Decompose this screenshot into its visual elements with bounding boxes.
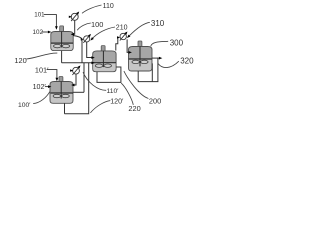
wire pump210 discharge into reactor 200 — [87, 42, 93, 58]
arrow into vessel2 upper left — [91, 56, 94, 59]
wire riser from vessel4 outlet to main line — [83, 63, 85, 93]
svg-text:100′: 100′ — [18, 102, 31, 109]
wire pump310 discharge into reactor 300 — [127, 39, 129, 52]
leader 200 — [124, 71, 148, 98]
svg-text:101′: 101′ — [35, 65, 49, 74]
reactor vessel 300 body — [129, 47, 153, 72]
leader 110' — [83, 72, 106, 90]
wire tee from vessel1 outlet down to main line — [81, 39, 83, 63]
wire vessel4 bottom outlet — [64, 103, 66, 113]
wire vessel2 recirculation loop 220 — [97, 67, 121, 82]
wire vessel3 loop tee to vessel right side — [151, 63, 153, 81]
svg-text:101: 101 — [34, 12, 45, 19]
leader 300 — [151, 41, 169, 46]
svg-text:110: 110 — [103, 3, 114, 10]
wire vessel3 recirculation loop — [138, 58, 160, 82]
svg-text:210: 210 — [116, 24, 128, 31]
arrow feed 102 into vessel1 — [48, 31, 51, 34]
arrow into vessel1 right side — [71, 33, 74, 36]
svg-text:320: 320 — [180, 57, 194, 66]
pump 310 — [119, 31, 129, 42]
leader 210 — [92, 27, 115, 39]
svg-text:220: 220 — [128, 104, 140, 113]
wire vessel1 side outlet curve to pump 210 — [73, 36, 82, 39]
label 102' connector — [45, 86, 49, 88]
leader 210 arrowhead — [89, 37, 93, 41]
pump 210 — [82, 33, 92, 44]
reactor vessel 200 stub — [101, 46, 105, 52]
wire vessel2 top riser to pump 310 — [116, 37, 118, 50]
leader 100 — [77, 23, 91, 30]
reactor vessel 100 body — [51, 32, 73, 51]
reactor vessel 200 body — [93, 51, 116, 72]
svg-text:102′: 102′ — [33, 83, 47, 91]
arrow product outlet 320 — [159, 57, 162, 60]
arrow feed 102' into vessel4 — [48, 85, 51, 88]
arrow feed 101' into vessel4 top — [56, 78, 59, 81]
label 102 connector — [42, 31, 49, 33]
arrow main feed into vessel2 left — [91, 62, 94, 65]
label 101' connector — [47, 70, 57, 79]
leader 310 arrowhead — [126, 35, 130, 39]
pump 110' — [70, 65, 81, 76]
pump 110 — [69, 11, 80, 22]
arrow into vessel3 left — [129, 51, 132, 54]
wire main feed line into reactor 200 — [62, 62, 93, 64]
leader 320 — [158, 61, 179, 67]
wire vessel4 side outlet — [73, 91, 84, 93]
reactor vessel 100' stub — [59, 77, 63, 83]
wire vessel4 bottom loop 120' — [65, 63, 89, 114]
arrow feed into pump 310 — [117, 36, 120, 38]
reactor vessel 300 stub — [138, 41, 142, 47]
reactor vessel 100 stub — [60, 26, 64, 32]
svg-text:300: 300 — [170, 38, 184, 47]
leader 120 — [26, 53, 57, 59]
leader 220 — [121, 83, 133, 105]
svg-text:102: 102 — [33, 29, 44, 36]
wire pump110' discharge into vessel4 — [74, 74, 77, 85]
arrow feed into pump 210 — [81, 38, 84, 41]
svg-text:120: 120 — [14, 56, 26, 65]
leader 100' — [33, 91, 50, 103]
svg-text:110′: 110′ — [107, 88, 120, 95]
leader 310 — [129, 22, 150, 36]
leader 120' — [90, 101, 110, 113]
leader 110 — [82, 5, 102, 13]
arrow feed 101 into vessel1 top — [55, 26, 58, 29]
wire vessel1 bottom outlet — [61, 51, 63, 63]
label 101 connector — [44, 15, 57, 27]
wire vessel3 outlet to product line — [152, 57, 158, 59]
reactor vessel 100' body — [50, 82, 73, 104]
svg-text:310: 310 — [151, 19, 165, 28]
wire pump110 discharge into vessel1 — [72, 20, 75, 34]
svg-text:100: 100 — [91, 20, 103, 29]
svg-text:200: 200 — [149, 96, 161, 105]
svg-text:120′: 120′ — [110, 97, 124, 105]
arrow into vessel4 right side — [71, 84, 74, 87]
